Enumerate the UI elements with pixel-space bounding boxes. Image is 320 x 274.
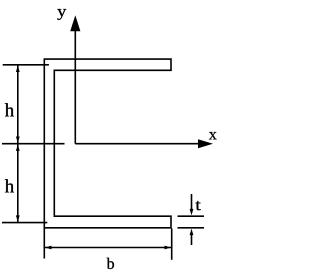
t arrow down	[190, 209, 194, 216]
b extension line right	[171, 229, 173, 260]
b arrow left	[45, 246, 52, 250]
channel section outline	[44, 59, 171, 228]
b arrow right	[165, 246, 172, 250]
b extension line left	[43, 229, 45, 259]
label h upper	[5, 103, 14, 116]
label h lower	[5, 179, 14, 192]
dimension line upper h	[17, 66, 19, 144]
extension tick middle (mid-height line)	[2, 143, 65, 145]
y-axis line	[74, 28, 76, 144]
y-axis arrowhead	[70, 15, 80, 31]
t leader line upper	[191, 194, 193, 210]
t extension line lower	[178, 227, 205, 229]
t extension line upper	[178, 215, 205, 217]
extension tick bottom (y of lower flange bottom)	[2, 222, 47, 224]
t leader line lower	[191, 235, 193, 245]
arrow up (upper h, top)	[16, 66, 20, 73]
extension tick top (y of upper flange top)	[3, 64, 49, 66]
label y	[57, 9, 66, 20]
label x	[209, 132, 217, 139]
label b	[107, 258, 114, 269]
b dimension line	[45, 247, 171, 249]
x-axis arrowhead	[198, 139, 213, 148]
x-axis line	[75, 143, 200, 145]
t arrow up	[190, 229, 194, 236]
arrow down (upper h, bottom)	[16, 137, 20, 144]
arrow down (lower h, bottom)	[16, 215, 20, 222]
dimension line lower h	[17, 144, 19, 222]
label t	[195, 201, 200, 210]
arrow up (lower h, top)	[16, 144, 20, 151]
